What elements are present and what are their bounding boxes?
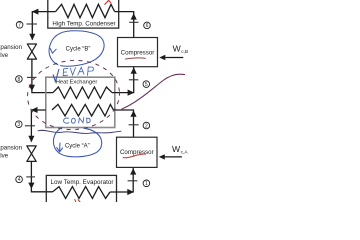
node circle 7 — [16, 22, 23, 29]
HX lower coil — [52, 104, 113, 116]
svg-text:2: 2 — [145, 123, 148, 129]
svg-text:Heat Exchanger: Heat Exchanger — [56, 80, 98, 86]
arrowhead down into HX corner — [29, 85, 35, 91]
red underline compressor B — [125, 58, 146, 59]
expansion valve A (bowtie) — [27, 146, 36, 154]
svg-text:Compressor: Compressor — [121, 49, 155, 56]
blue handwritten EVAP — [63, 67, 93, 76]
compressor A box — [117, 137, 158, 167]
evaporator coil — [52, 187, 110, 199]
node circle 1 — [143, 180, 150, 187]
red squiggle compressor A — [123, 154, 146, 158]
blue cycle A arrow — [57, 143, 63, 152]
arrowhead down above valve A — [28, 136, 34, 142]
svg-text:c,B: c,B — [181, 49, 188, 55]
svg-text:4: 4 — [18, 177, 21, 183]
svg-text:Cycle “B”: Cycle “B” — [66, 46, 91, 52]
wire condenser left to corner — [32, 12, 55, 40]
wire HX lower coil from compressor A (discharge) — [113, 110, 133, 137]
blue cycle A loop annotation — [53, 128, 101, 157]
svg-text:6: 6 — [146, 23, 149, 29]
heat exchanger box — [46, 77, 115, 127]
blue cycle B loop arrowhead — [50, 48, 56, 53]
tick state 3 — [25, 125, 35, 127]
arrowhead down above evaporator corner — [28, 183, 34, 189]
wire valve A to evaporator — [31, 161, 52, 191]
arrowhead down above valve B — [29, 34, 35, 40]
wire evaporator to compressor A (suction) — [110, 168, 133, 192]
condenser coil — [56, 4, 115, 17]
compressor B box — [118, 38, 158, 67]
expansion valve B (bowtie) — [27, 44, 36, 52]
blue check mark near EVAP — [53, 69, 59, 81]
arrowhead left at corner 7 — [32, 9, 39, 15]
arrowhead right at corner 5 — [128, 90, 135, 96]
node circle 3 — [15, 121, 22, 128]
svg-text:Low Temp. Evaporator: Low Temp. Evaporator — [51, 179, 114, 186]
tick state 4 — [26, 176, 35, 178]
red mark under evaporator coil — [75, 199, 81, 203]
arrowhead up into compressor B — [131, 67, 137, 73]
maroon long curve to upper right — [122, 74, 185, 109]
wire HX upper coil to compressor B (suction) — [112, 67, 134, 93]
tick state 5 — [129, 79, 138, 81]
svg-text:Expansion: Expansion — [0, 144, 23, 151]
svg-text:Valve: Valve — [0, 52, 9, 59]
svg-text:c,A: c,A — [181, 150, 189, 156]
svg-text:Expansion: Expansion — [0, 44, 23, 51]
svg-text:1: 1 — [145, 181, 148, 187]
arrowhead up below corner 6 — [131, 13, 137, 19]
wire compressor B to condenser (discharge) — [115, 12, 134, 38]
svg-text:High Temp. Condenser: High Temp. Condenser — [52, 20, 115, 27]
svg-text:5: 5 — [145, 82, 148, 88]
W_c,B input arrow — [161, 57, 183, 59]
wire valve B to heat exchanger — [32, 59, 53, 93]
arrowhead up at corner 2 — [130, 110, 136, 116]
node circle 4 — [16, 176, 23, 183]
wire HX lower coil to valve A — [31, 110, 45, 142]
HX upper coil — [53, 87, 112, 98]
node circle 2 — [143, 122, 150, 129]
red check mark top — [105, 0, 111, 4]
tick state 8 — [27, 76, 37, 78]
blue handwritten COND — [64, 118, 91, 124]
svg-text:Valve: Valve — [0, 152, 9, 159]
arrowhead up into compressor A — [130, 168, 136, 174]
tick state 1 — [128, 180, 138, 182]
tick state 6 — [129, 21, 138, 23]
tick state 2 — [129, 124, 139, 126]
svg-text:3: 3 — [17, 122, 20, 128]
node circle 5 — [143, 81, 150, 88]
navy wavy line under heat exchanger — [38, 130, 121, 133]
evaporator box (Low Temp. Evaporator) — [46, 175, 116, 207]
maroon dashed ellipse around heat exchanger — [25, 57, 122, 132]
node circle 8 — [16, 76, 23, 83]
W_c,A input arrow — [161, 156, 182, 158]
svg-text:7: 7 — [18, 23, 21, 29]
arrowhead left at corner 3 — [31, 107, 38, 113]
svg-text:8: 8 — [18, 77, 21, 83]
condenser box (High Temp. Condenser) — [48, 0, 119, 28]
tick state 7 — [27, 23, 38, 25]
svg-text:Cycle “A”: Cycle “A” — [65, 144, 90, 150]
blue cycle B loop annotation — [49, 31, 104, 66]
arrowhead right at corner 1 — [127, 189, 134, 195]
node circle 6 — [144, 22, 151, 29]
